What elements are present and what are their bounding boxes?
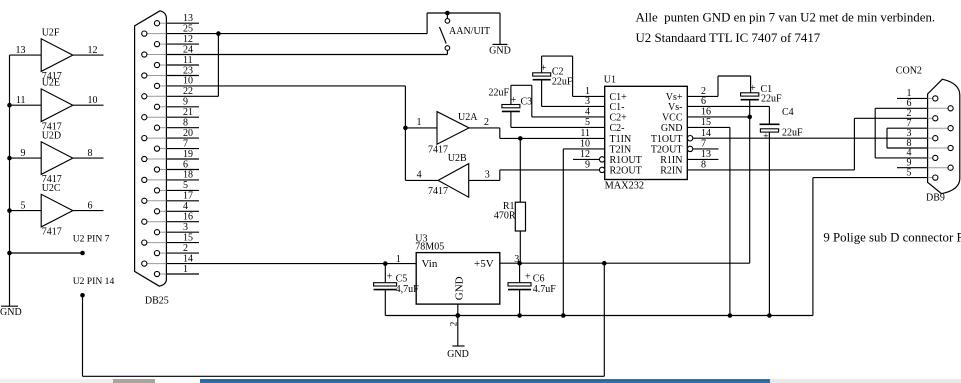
svg-text:C5: C5 bbox=[396, 274, 408, 285]
svg-text:9 Polige sub D connector F: 9 Polige sub D connector F bbox=[823, 230, 961, 244]
svg-text:24: 24 bbox=[183, 44, 193, 55]
svg-text:7: 7 bbox=[701, 139, 706, 150]
svg-text:8: 8 bbox=[701, 160, 706, 171]
svg-text:T2IN: T2IN bbox=[610, 145, 632, 156]
svg-text:12: 12 bbox=[580, 149, 590, 160]
svg-text:R1OUT: R1OUT bbox=[610, 155, 642, 166]
svg-text:7417: 7417 bbox=[42, 227, 62, 238]
svg-text:2: 2 bbox=[448, 322, 458, 327]
svg-text:U2A: U2A bbox=[458, 112, 478, 123]
svg-text:GND: GND bbox=[453, 276, 465, 300]
svg-text:4: 4 bbox=[585, 107, 590, 118]
svg-text:22uF: 22uF bbox=[552, 76, 573, 87]
svg-text:7417: 7417 bbox=[428, 186, 448, 197]
svg-text:T1IN: T1IN bbox=[610, 134, 632, 145]
svg-text:Vs-: Vs- bbox=[668, 102, 682, 113]
svg-text:GND: GND bbox=[447, 349, 469, 360]
svg-text:+: + bbox=[525, 271, 531, 282]
svg-text:C1-: C1- bbox=[610, 102, 625, 113]
svg-text:1: 1 bbox=[396, 254, 401, 265]
svg-text:1: 1 bbox=[417, 117, 422, 128]
svg-text:DB25: DB25 bbox=[145, 295, 169, 306]
svg-text:16: 16 bbox=[701, 107, 711, 118]
svg-text:13: 13 bbox=[16, 45, 26, 56]
svg-text:12: 12 bbox=[88, 45, 98, 56]
svg-text:6: 6 bbox=[701, 96, 706, 107]
svg-text:4: 4 bbox=[183, 201, 188, 212]
svg-text:3: 3 bbox=[183, 222, 188, 233]
svg-text:10: 10 bbox=[88, 95, 98, 106]
svg-text:5: 5 bbox=[907, 167, 912, 178]
svg-text:VCC: VCC bbox=[662, 113, 683, 124]
svg-text:5: 5 bbox=[21, 200, 26, 211]
svg-text:C6: C6 bbox=[533, 274, 545, 285]
svg-text:MAX232: MAX232 bbox=[605, 180, 644, 191]
svg-text:Alle punten GND en pin 7 van: Alle punten GND en pin 7 van U2 met de m… bbox=[636, 11, 936, 25]
svg-text:+: + bbox=[541, 63, 547, 74]
svg-text:U2 PIN 14: U2 PIN 14 bbox=[73, 276, 115, 287]
svg-text:C2-: C2- bbox=[610, 123, 625, 134]
svg-text:+: + bbox=[750, 83, 756, 94]
svg-text:U2B: U2B bbox=[448, 153, 467, 164]
svg-text:+: + bbox=[763, 132, 769, 143]
svg-text:U2 PIN 7: U2 PIN 7 bbox=[73, 234, 110, 245]
svg-text:10: 10 bbox=[580, 139, 590, 150]
svg-text:7: 7 bbox=[183, 138, 188, 149]
svg-text:14: 14 bbox=[183, 253, 193, 264]
svg-text:CON2: CON2 bbox=[896, 66, 922, 77]
svg-text:12: 12 bbox=[183, 34, 193, 45]
svg-text:T2OUT: T2OUT bbox=[651, 145, 683, 156]
svg-text:GND: GND bbox=[0, 307, 22, 318]
svg-text:C2+: C2+ bbox=[610, 113, 628, 124]
svg-text:8: 8 bbox=[183, 118, 188, 129]
svg-text:C4: C4 bbox=[782, 107, 794, 118]
svg-text:22uF: 22uF bbox=[761, 94, 782, 105]
svg-text:6: 6 bbox=[88, 200, 93, 211]
svg-text:U2E: U2E bbox=[42, 78, 60, 89]
svg-text:3: 3 bbox=[485, 169, 490, 180]
svg-text:15: 15 bbox=[701, 117, 711, 128]
svg-text:+: + bbox=[387, 271, 393, 282]
svg-text:3: 3 bbox=[585, 96, 590, 107]
svg-text:15: 15 bbox=[183, 232, 193, 243]
svg-text:19: 19 bbox=[183, 149, 193, 160]
svg-text:R2IN: R2IN bbox=[660, 166, 682, 177]
svg-text:8: 8 bbox=[88, 148, 93, 159]
svg-text:25: 25 bbox=[183, 23, 193, 34]
svg-text:20: 20 bbox=[183, 128, 193, 139]
svg-text:C3: C3 bbox=[521, 97, 533, 108]
svg-text:4.7uF: 4.7uF bbox=[533, 284, 557, 295]
svg-text:1: 1 bbox=[183, 264, 188, 275]
svg-text:+5V: +5V bbox=[474, 258, 494, 270]
svg-text:4,7uF: 4,7uF bbox=[396, 284, 420, 295]
svg-text:Vin: Vin bbox=[422, 258, 438, 270]
svg-text:GND: GND bbox=[661, 123, 683, 134]
svg-text:11: 11 bbox=[16, 95, 26, 106]
svg-text:14: 14 bbox=[701, 128, 711, 139]
svg-text:11: 11 bbox=[183, 55, 193, 66]
svg-text:U1: U1 bbox=[604, 75, 616, 86]
svg-text:4: 4 bbox=[417, 169, 422, 180]
svg-text:GND: GND bbox=[489, 45, 511, 56]
svg-text:2: 2 bbox=[484, 117, 489, 128]
svg-text:DB9: DB9 bbox=[926, 193, 945, 204]
svg-text:AAN/UIT: AAN/UIT bbox=[449, 26, 490, 37]
svg-text:5: 5 bbox=[585, 117, 590, 128]
svg-text:U2D: U2D bbox=[42, 130, 61, 141]
svg-text:R1IN: R1IN bbox=[660, 155, 682, 166]
svg-text:U2C: U2C bbox=[42, 183, 61, 194]
svg-text:7417: 7417 bbox=[428, 144, 448, 155]
svg-text:9: 9 bbox=[183, 97, 188, 108]
svg-text:21: 21 bbox=[183, 107, 193, 118]
svg-text:13: 13 bbox=[183, 13, 193, 24]
svg-text:R2OUT: R2OUT bbox=[610, 166, 642, 177]
svg-text:470R: 470R bbox=[494, 211, 516, 222]
svg-text:22: 22 bbox=[183, 86, 193, 97]
svg-text:5: 5 bbox=[183, 180, 188, 191]
svg-text:22uF: 22uF bbox=[782, 127, 803, 138]
svg-text:U2 Standaard TTL IC 7407 of 74: U2 Standaard TTL IC 7407 of 7417 bbox=[636, 31, 821, 45]
svg-text:2: 2 bbox=[183, 243, 188, 254]
svg-text:6: 6 bbox=[183, 159, 188, 170]
svg-text:10: 10 bbox=[183, 76, 193, 87]
svg-text:3: 3 bbox=[514, 254, 519, 265]
svg-text:17: 17 bbox=[183, 191, 193, 202]
svg-text:22uF: 22uF bbox=[489, 88, 510, 99]
svg-text:11: 11 bbox=[580, 128, 590, 139]
svg-text:9: 9 bbox=[21, 148, 26, 159]
svg-text:9: 9 bbox=[585, 160, 590, 171]
svg-text:16: 16 bbox=[183, 212, 193, 223]
svg-text:T1OUT: T1OUT bbox=[651, 134, 683, 145]
svg-text:23: 23 bbox=[183, 65, 193, 76]
svg-text:13: 13 bbox=[701, 149, 711, 160]
svg-text:U2F: U2F bbox=[42, 27, 60, 38]
svg-text:+: + bbox=[511, 95, 517, 106]
svg-text:78M05: 78M05 bbox=[415, 242, 444, 253]
svg-text:18: 18 bbox=[183, 170, 193, 181]
